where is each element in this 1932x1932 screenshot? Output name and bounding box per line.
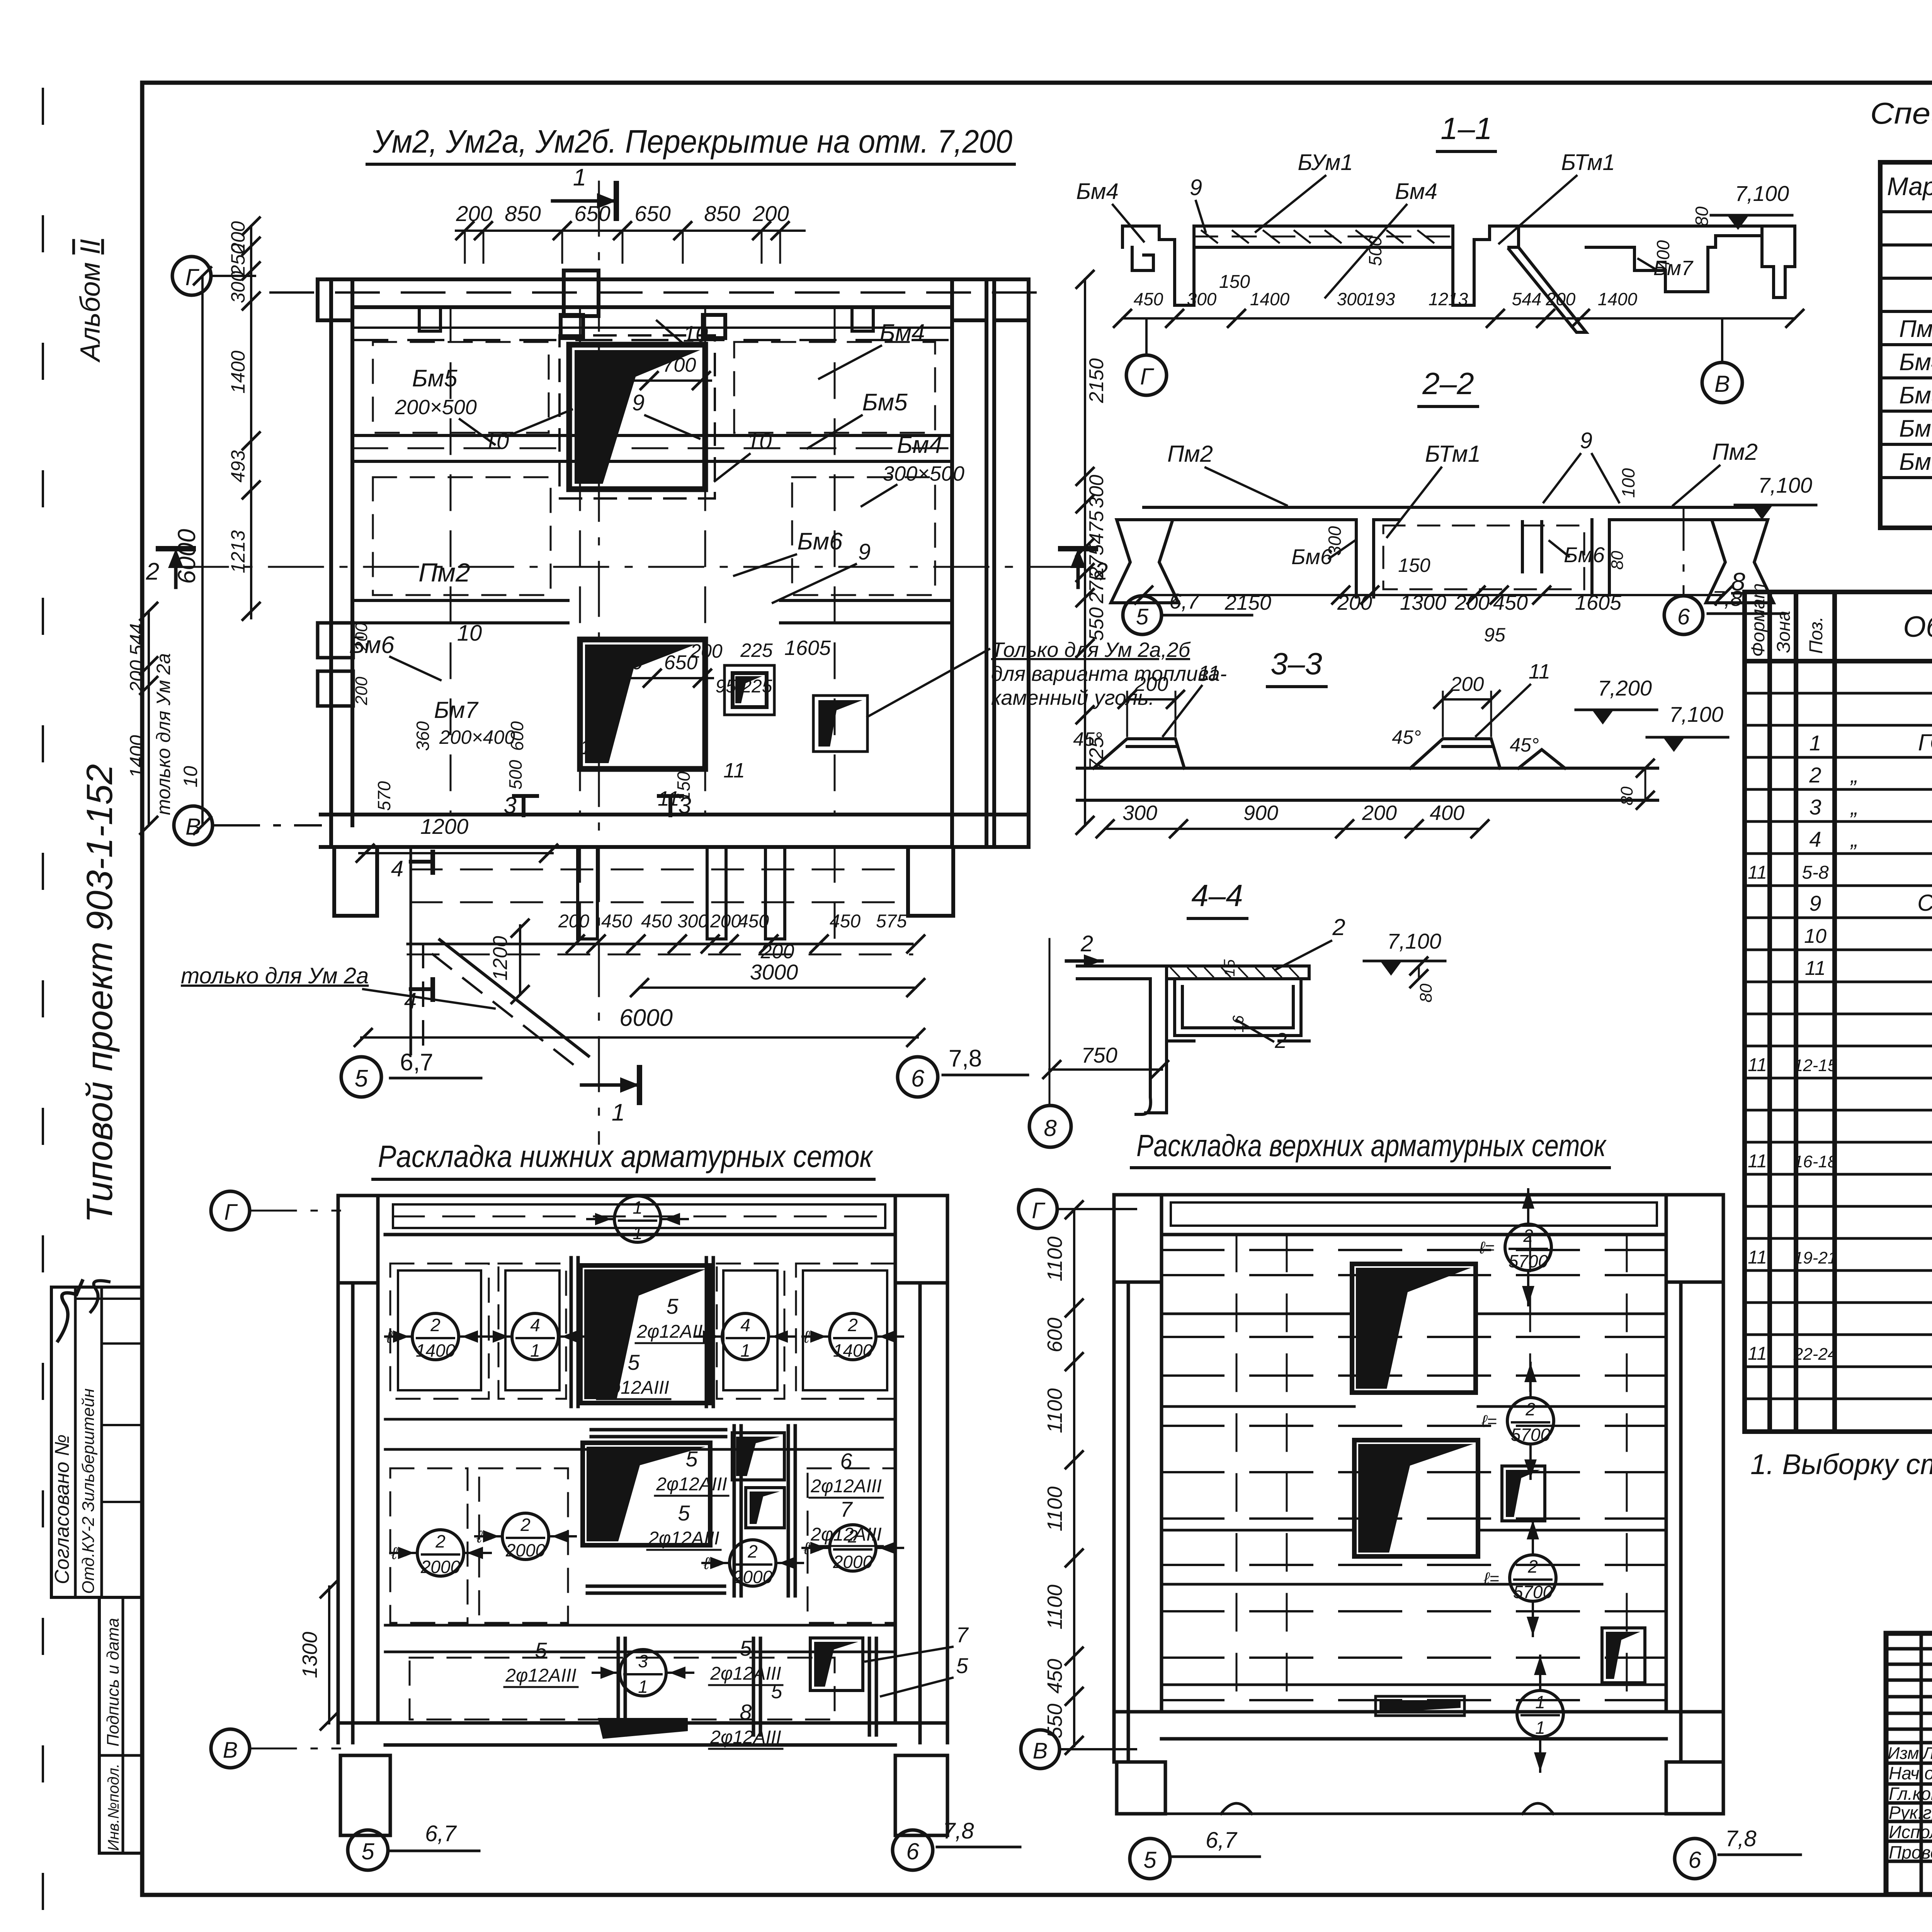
svg-text:Бм4: Бм4 [1395,179,1437,204]
svg-text:600: 600 [507,721,527,751]
axis В circle [1021,1730,1060,1769]
svg-text:Бм6: Бм6 [797,528,843,555]
svg-text:6,7: 6,7 [400,1049,433,1076]
svg-text:1100: 1100 [1043,1585,1066,1629]
svg-text:Серия 3.400-6: Серия 3.400-6 [1917,890,1932,916]
axis 6 circle [1675,1838,1715,1879]
svg-text:11: 11 [580,736,602,759]
svg-text:570: 570 [374,781,394,811]
svg-text:Альбом II: Альбом II [75,239,106,363]
svg-text:БУм1: БУм1 [1298,150,1353,175]
svg-text:2000: 2000 [733,1567,773,1587]
svg-text:5: 5 [666,1294,679,1318]
svg-text:Бм7: Бм7 [434,697,479,723]
svg-text:2150: 2150 [1085,358,1108,403]
svg-text:1300: 1300 [298,1632,321,1678]
svg-text:300: 300 [1085,475,1108,509]
top band inner [1171,1202,1657,1226]
svg-text:Бм5: Бм5 [862,389,908,416]
svg-text:2: 2 [146,558,159,585]
svg-text:11: 11 [1805,957,1826,980]
svg-text:„: „ [1850,763,1858,787]
svg-text:9: 9 [1809,891,1821,915]
column centerlines into lower strip [580,847,835,939]
svg-text:1400: 1400 [833,1340,873,1361]
opening 3 small [724,665,774,715]
plan walls [338,1196,947,1835]
interior dashed grid horizontals [1162,1250,1666,1700]
title block left section grid [1886,1633,1932,1895]
svg-text:ℓ=: ℓ= [1479,1238,1495,1257]
svg-text:2: 2 [747,1541,758,1561]
interior beam band 2 [385,1624,895,1627]
svg-text:5: 5 [1136,604,1149,629]
svg-text:16-18: 16-18 [1794,1152,1837,1171]
section 2-2 dim chain [1144,594,1723,596]
svg-text:5: 5 [678,1501,690,1525]
svg-text:Раскладка нижних арматурных се: Раскладка нижних арматурных сеток [378,1139,874,1173]
svg-text:1: 1 [612,1099,625,1126]
svg-text:2000: 2000 [505,1540,546,1560]
axis В circle [174,806,213,845]
small squares on beam [561,315,583,338]
svg-text:200: 200 [1450,673,1484,696]
bottom corner columns [334,847,377,916]
svg-text:200: 200 [352,622,371,651]
svg-text:11: 11 [1748,862,1767,883]
svg-text:1100: 1100 [1043,1236,1066,1281]
svg-text:2: 2 [1525,1399,1536,1419]
svg-text:1. Выборку стали на I элемент: 1. Выборку стали на I элемент см. л. КЖ3… [1750,1448,1932,1480]
svg-text:200: 200 [352,677,371,706]
svg-text:Бм4: Бм4 [897,432,942,458]
svg-text:7,8: 7,8 [949,1045,982,1072]
svg-text:для варианта топлива-: для варианта топлива- [991,662,1227,685]
svg-text:7: 7 [840,1497,853,1521]
svg-text:80: 80 [1608,551,1627,570]
svg-text:300: 300 [1187,289,1217,309]
svg-text:Только для Ум 2а,2б: Только для Ум 2а,2б [991,638,1191,662]
svg-text:1: 1 [633,1223,643,1243]
svg-text:4: 4 [404,988,417,1014]
svg-text:3–3: 3–3 [1270,646,1322,681]
svg-text:100: 100 [1618,468,1638,498]
svg-text:2φ12АIII: 2φ12АIII [656,1474,727,1495]
svg-text:45°: 45° [1510,734,1539,756]
svg-text:650: 650 [634,201,670,226]
sidebar stamp table upper box [51,1287,142,1597]
svg-text:95 225: 95 225 [716,676,772,697]
svg-text:5: 5 [740,1636,752,1660]
black wedge opening 1 [1352,1264,1476,1393]
svg-text:ℓ=: ℓ= [386,1328,402,1347]
svg-text:80: 80 [1417,983,1435,1002]
svg-text:80: 80 [1617,786,1636,805]
interior dashed grid vertical [451,307,835,815]
axis Г circle [172,257,211,295]
section mark 1 top [553,199,616,203]
outer 6000 chain [201,276,204,825]
interior beam band 1 [385,1418,895,1421]
svg-text:45°: 45° [1073,728,1102,750]
svg-text:200: 200 [1337,591,1372,614]
svg-text:ℓ=: ℓ= [1481,1412,1497,1431]
svg-text:3: 3 [1809,795,1821,819]
svg-text:200: 200 [710,911,741,932]
svg-text:6,7: 6,7 [1206,1828,1238,1853]
section 1-1 dim chain [1122,317,1795,320]
svg-text:10: 10 [747,429,772,454]
svg-text:Бм6: Бм6 [1564,543,1605,567]
svg-text:В: В [185,814,201,840]
svg-text:4: 4 [530,1315,540,1335]
black wedge opening 1 [580,1265,710,1403]
svg-text:550: 550 [1085,607,1108,641]
svg-text:1605: 1605 [1575,591,1622,614]
svg-text:5: 5 [355,1065,368,1092]
svg-text:Пм2: Пм2 [1167,441,1213,467]
appendix diagonal [440,940,588,1056]
svg-text:200: 200 [126,660,148,693]
section mark 2 right [1077,562,1080,587]
svg-text:200: 200 [690,640,723,662]
svg-text:Бм5: Бм5 [1899,382,1932,409]
svg-text:10: 10 [457,621,482,646]
svg-text:300: 300 [1122,801,1157,825]
svg-text:1400: 1400 [126,735,148,778]
black wedge lower right [813,696,867,752]
svg-text:8: 8 [1044,1115,1057,1141]
small joist stubs under top wall [419,307,440,331]
svg-text:Отд.КУ-2 Зильберштейн: Отд.КУ-2 Зильберштейн [79,1388,98,1594]
materials table grid [1745,592,1932,1432]
svg-text:200: 200 [558,911,589,932]
bottom black bar [598,1718,688,1739]
svg-text:ℓ=: ℓ= [1483,1569,1499,1588]
solid small panels row1 [398,1270,481,1390]
corner column blocks [318,270,1029,320]
section 1-1 drawing [1122,226,1795,332]
svg-text:Марка: Марка [1887,172,1932,201]
svg-text:Раскладка верхних арматурных с: Раскладка верхних арматурных сеток [1136,1128,1607,1163]
axis 5 circle [348,1830,388,1870]
bottom small wedge [810,1638,863,1690]
svg-text:200×400: 200×400 [439,726,515,748]
svg-text:10: 10 [180,766,201,787]
svg-text:Спецификация элементов к ма: Спецификация элементов к маркировочной с… [1870,96,1932,130]
svg-text:150: 150 [1219,272,1250,292]
svg-text:6000: 6000 [619,1005,673,1031]
black wedge opening 2 [1354,1440,1478,1556]
section mark 2 left [174,562,178,587]
svg-text:450: 450 [641,911,672,932]
svg-text:900: 900 [1243,801,1278,825]
svg-text:4: 4 [740,1315,750,1335]
top band inner beam [393,1204,885,1228]
svg-text:22-24: 22-24 [1793,1345,1837,1364]
section 3-3 top dims [1127,698,1175,701]
axis Г circle [211,1191,250,1230]
svg-text:Бм7: Бм7 [1899,449,1932,475]
svg-text:2: 2 [1094,558,1108,585]
svg-text:225: 225 [740,639,773,661]
left wall pilasters [318,623,353,658]
svg-text:Пм2: Пм2 [418,558,470,587]
svg-text:300: 300 [1325,526,1345,556]
svg-text:только для Ум 2а: только для Ум 2а [181,963,369,988]
svg-text:Рук.гр.: Рук.гр. [1889,1803,1932,1823]
svg-text:5700: 5700 [1509,1251,1548,1271]
svg-text:7,200: 7,200 [1598,676,1652,700]
section 3-3 bottom dims [1105,828,1480,830]
svg-text:Типовой проект 903-1-152: Типовой проект 903-1-152 [79,764,120,1223]
section 2-2 drawing [1111,507,1774,603]
svg-text:6,7: 6,7 [1169,589,1200,613]
svg-text:5: 5 [956,1653,968,1678]
svg-text:1: 1 [530,1340,540,1361]
top wall band [321,279,1029,307]
svg-text:Бм4: Бм4 [1899,349,1932,376]
svg-text:„: „ [1850,827,1858,851]
svg-text:45°: 45° [1392,726,1421,748]
opening 1 with black wedge [560,335,715,498]
lower slab edge [408,943,912,946]
svg-text:200: 200 [1362,801,1397,825]
svg-text:2: 2 [847,1315,858,1335]
svg-text:3000: 3000 [750,960,798,984]
svg-text:Лист: Лист [1922,1744,1932,1763]
svg-text:2: 2 [1080,931,1093,956]
svg-text:Г: Г [224,1200,238,1225]
svg-text:Г: Г [1140,364,1155,389]
svg-text:2: 2 [1332,914,1345,940]
sidebar stamp table lower box [99,1597,142,1853]
svg-text:500: 500 [1365,236,1385,266]
svg-text:В: В [223,1738,238,1763]
section cut line 2 horizontal [174,566,1082,568]
svg-text:550: 550 [1043,1704,1066,1738]
svg-text:544: 544 [1512,289,1542,309]
svg-text:2φ12АIII: 2φ12АIII [648,1528,719,1549]
axis 5 circle [1130,1838,1170,1879]
svg-text:11: 11 [1748,1247,1767,1268]
top dimension chain [456,230,804,232]
mesh panel dashed rects in bays [373,342,935,595]
svg-text:1100: 1100 [1043,1388,1066,1433]
svg-text:Бм6: Бм6 [1899,415,1932,442]
svg-text:5: 5 [685,1447,698,1471]
svg-text:5: 5 [361,1838,374,1864]
svg-text:360: 360 [413,721,433,751]
svg-text:200: 200 [1134,673,1168,696]
right dim chain [1084,279,1086,825]
mesh circles vertical [1505,1224,1551,1270]
section 1-1 axis circles [1145,318,1148,355]
svg-text:6: 6 [1677,604,1690,629]
svg-text:7,100: 7,100 [1758,473,1812,497]
svg-text:ℓ=: ℓ= [391,1544,407,1563]
plan walls [1114,1195,1723,1814]
bar pair lines [571,1258,876,1735]
svg-text:8: 8 [740,1700,752,1724]
svg-text:7,100: 7,100 [1669,702,1723,726]
svg-text:1: 1 [740,1340,750,1361]
svg-text:1213: 1213 [227,530,249,573]
bottom break squiggle [1221,1803,1553,1814]
svg-text:6,7: 6,7 [425,1821,457,1846]
svg-text:2: 2 [1809,763,1821,787]
svg-text:450: 450 [738,911,769,932]
svg-text:11: 11 [1748,1055,1767,1075]
dim 1300 left [328,1587,330,1723]
svg-text:2: 2 [1274,1028,1287,1053]
svg-text:600: 600 [1043,1318,1066,1352]
svg-text:1400: 1400 [1250,289,1290,309]
axis Г circle [1019,1190,1057,1228]
svg-text:700: 700 [663,354,696,376]
svg-text:300: 300 [227,271,249,303]
axis 6 circle [898,1057,938,1097]
svg-text:2φ12АIII: 2φ12АIII [505,1665,576,1686]
svg-text:450: 450 [601,911,632,932]
svg-text:Гл.констр.: Гл.констр. [1889,1784,1932,1804]
svg-text:1100: 1100 [1043,1486,1066,1531]
svg-text:Инв.№подл.: Инв.№подл. [105,1764,122,1851]
svg-text:493: 493 [227,450,249,483]
svg-text:2φ12АIII: 2φ12АIII [598,1378,669,1398]
svg-text:5: 5 [535,1638,547,1662]
svg-text:5: 5 [771,1680,783,1703]
svg-text:7,8: 7,8 [1712,586,1742,611]
svg-text:Подпись и дата: Подпись и дата [104,1618,122,1747]
axis 5 circle [341,1057,381,1097]
svg-text:1200: 1200 [420,814,469,838]
svg-text:1300: 1300 [1400,591,1446,614]
svg-text:Обозначение: Обозначение [1903,611,1932,643]
svg-text:300: 300 [1337,289,1367,309]
svg-text:1400: 1400 [1598,289,1638,309]
left dim chain inner [250,226,252,618]
svg-text:5700: 5700 [1511,1425,1551,1445]
svg-text:19-21: 19-21 [1794,1248,1837,1267]
beam band 2 [352,599,568,602]
svg-text:Г: Г [1032,1198,1046,1223]
svg-text:Бм5: Бм5 [412,365,457,392]
svg-text:Бм7: Бм7 [1653,257,1694,280]
svg-text:11: 11 [723,759,745,782]
svg-text:1: 1 [1809,731,1821,755]
svg-text:2: 2 [1523,1226,1533,1246]
svg-text:700: 700 [605,354,639,376]
svg-text:1: 1 [633,1197,643,1218]
left wall [331,279,352,847]
small stub columns [578,847,597,939]
svg-text:1: 1 [573,164,586,191]
svg-text:Г: Г [185,264,200,290]
svg-text:2: 2 [435,1531,446,1551]
shared dim chain between plans [1073,1210,1075,1746]
svg-text:Исполн.: Исполн. [1889,1822,1932,1842]
interior solid band lines [1162,1314,1666,1685]
svg-text:1200: 1200 [489,936,512,981]
svg-text:2: 2 [1527,1556,1538,1577]
small wedge A [1502,1466,1545,1521]
svg-text:ℓ=: ℓ= [476,1527,492,1546]
opening 2 with black wedge [580,639,705,769]
right double wall [952,279,1029,847]
wall centerline dashed [270,291,1043,294]
svg-text:БТм1: БТм1 [1561,150,1615,175]
svg-text:400: 400 [1430,801,1464,825]
svg-text:2150: 2150 [1225,591,1271,614]
svg-text:ГОСТ 8478-66: ГОСТ 8478-66 [1918,730,1932,755]
interior dashed grid verticals [1236,1235,1627,1712]
svg-text:2000: 2000 [420,1557,461,1577]
svg-text:200: 200 [1546,289,1576,309]
svg-text:6: 6 [911,1065,925,1092]
beam strip under top wall [352,327,952,329]
svg-text:11: 11 [1748,1151,1767,1172]
svg-text:2φ12АIII: 2φ12АIII [810,1524,881,1545]
black wedge opening 2 [583,1443,710,1545]
svg-text:12-15: 12-15 [1794,1056,1837,1075]
svg-text:3: 3 [638,1651,648,1671]
svg-text:200: 200 [1454,591,1490,614]
svg-text:7,100: 7,100 [1387,929,1441,953]
signature scrawl [58,1281,82,1341]
bottom black bar [1376,1696,1464,1716]
svg-text:только для Ум 2а: только для Ум 2а [153,653,174,815]
svg-text:850: 850 [505,201,541,226]
svg-text:В: В [1714,371,1730,397]
svg-text:11: 11 [1748,1344,1767,1364]
bottom wall band on axis В [321,813,1029,816]
svg-text:450: 450 [1493,591,1528,614]
svg-text:450: 450 [830,911,861,932]
svg-text:Бм4: Бм4 [1076,179,1119,204]
beam band 1 [352,434,952,437]
svg-text:80: 80 [1692,206,1712,226]
svg-text:6: 6 [1688,1847,1701,1873]
svg-text:5-8: 5-8 [1802,862,1829,883]
svg-text:5: 5 [1143,1847,1156,1873]
svg-text:10: 10 [484,429,509,454]
section 2-2 axis circles [1123,596,1162,634]
svg-text:4: 4 [391,856,403,881]
svg-text:5: 5 [628,1350,640,1374]
svg-text:450: 450 [1043,1659,1066,1694]
svg-text:В: В [1033,1738,1048,1764]
mesh panel dashed rects row1 [390,1264,895,1719]
svg-text:15: 15 [1221,959,1238,976]
svg-text:Проверил: Проверил [1889,1842,1932,1862]
svg-text:300: 300 [677,911,708,932]
svg-text:Согласовано №: Согласовано № [51,1434,73,1584]
small wedge pair right [732,1433,784,1480]
svg-text:Нач.отд.: Нач.отд. [1889,1763,1932,1783]
sheet outer dashed trim line left [42,89,44,1917]
svg-text:7,100: 7,100 [1735,181,1789,206]
svg-text:10: 10 [683,321,708,347]
svg-text:2φ12АIII: 2φ12АIII [710,1663,781,1684]
svg-text:200: 200 [456,201,492,226]
svg-text:Изм.: Изм. [1888,1744,1924,1763]
svg-text:11: 11 [1529,660,1550,683]
svg-text:Бм4: Бм4 [879,320,925,346]
section 4-4 axis B circle [1029,1105,1071,1147]
svg-text:„: „ [1850,795,1858,819]
svg-text:544: 544 [126,623,148,655]
